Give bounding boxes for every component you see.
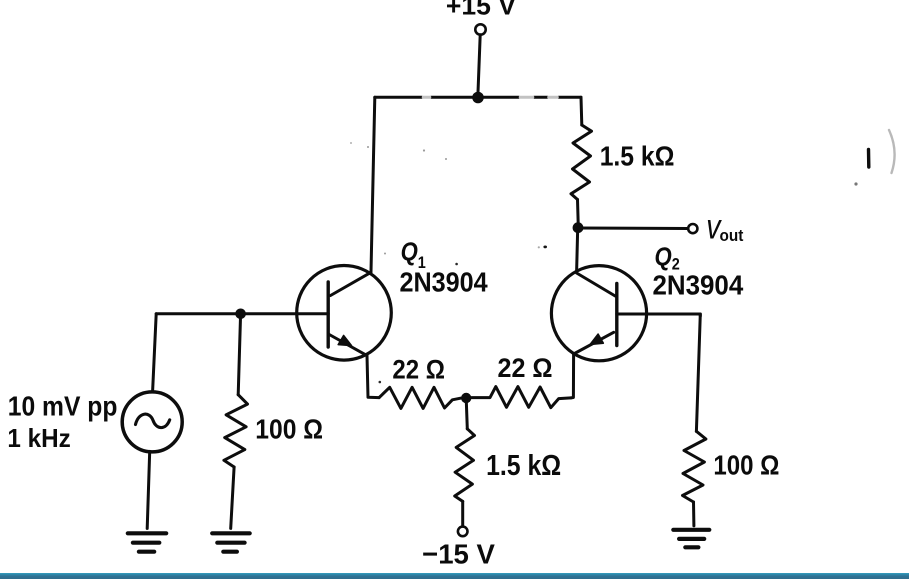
svg-text:1.5 kΩ: 1.5 kΩ (486, 449, 561, 481)
svg-text:−15 V: −15 V (422, 538, 495, 569)
wire top supply rail (375, 96, 581, 99)
wire RB1 to ground (231, 467, 234, 528)
wire RB2 to ground (692, 502, 695, 526)
transistor Q1 circle (297, 266, 392, 361)
ground RB1 (212, 533, 250, 551)
decorative bottom blue bar (0, 573, 909, 579)
wire +15V terminal to rail (478, 35, 480, 98)
node -15V terminal (458, 527, 468, 537)
wire rail left drop to Q1 collector (371, 97, 375, 271)
wire source to ground (147, 451, 150, 528)
transistor Q1 collector lead (331, 272, 372, 295)
transistor Q2 emitter lead (574, 332, 614, 354)
svg-text:100 Ω: 100 Ω (713, 449, 779, 481)
wire Q2 base net down to RB2 (696, 314, 700, 431)
wire RC bottom to vout node (576, 200, 580, 228)
node junction dot at collector/vout (573, 222, 584, 233)
svg-text:1.5 kΩ: 1.5 kΩ (600, 140, 675, 172)
svg-text:out: out (720, 227, 745, 245)
wire Q1 base lead to input net (156, 312, 328, 315)
transistor Q2 circle (551, 266, 646, 361)
svg-text:2N3904: 2N3904 (399, 266, 487, 298)
svg-text:1 kHz: 1 kHz (7, 424, 70, 453)
wire RE2 to Q2 emitter (571, 354, 574, 398)
wire RT to -15V terminal (461, 501, 464, 526)
ground RB2 (673, 530, 709, 548)
wire Q2 base lead right (617, 314, 701, 316)
resistor RC 1.5 kOhm (collector load) (571, 125, 592, 200)
transistor Q2 emitter arrow (590, 334, 603, 344)
resistor RB2 100 Ohm (683, 431, 706, 502)
stray scan dot (854, 182, 857, 185)
svg-text:22 Ω: 22 Ω (392, 355, 445, 385)
transistor Q1 base bar (327, 282, 330, 347)
wire vout node to output terminal (578, 227, 688, 231)
node junction dot input net (235, 309, 246, 320)
wire emitter net down to RT (466, 398, 467, 429)
wire Q1 emitter down to RE1 (367, 356, 379, 398)
stray scan mark arc (889, 130, 895, 173)
ground source (128, 533, 166, 551)
node junction dot emitter net (461, 393, 471, 403)
stray scan speck faint smudge (538, 246, 540, 248)
resistor RB1 100 Ohm (224, 395, 248, 467)
stray scan mark vertical tick (867, 150, 871, 168)
svg-text:2N3904: 2N3904 (652, 270, 743, 301)
svg-text:100 Ω: 100 Ω (255, 413, 323, 445)
stray scan speck left of Q2 label (543, 246, 547, 249)
resistor RE2 22 Ohm (472, 387, 571, 408)
source VS sine wave (136, 414, 170, 428)
transistor Q1 emitter lead (328, 334, 367, 356)
transistor Q2 collector lead (577, 273, 616, 296)
wire rail right drop to RC top (580, 97, 584, 125)
stray faint speckles (350, 142, 447, 254)
svg-text:22 Ω: 22 Ω (498, 352, 553, 383)
svg-text:10 mV pp: 10 mV pp (8, 390, 118, 422)
wire input net down to source (153, 314, 157, 392)
transistor Q1 emitter arrow (338, 336, 351, 346)
node vout terminal (688, 224, 697, 233)
resistor RT 1.5 kOhm (tail) (455, 429, 475, 502)
wire input net to RB1 (238, 314, 240, 395)
node +15 V terminal (475, 24, 485, 34)
stray scan speck above RE1 (379, 381, 382, 384)
resistor RE1 22 Ohm (379, 387, 460, 408)
wire rail scan dropout gaps (424, 95, 557, 100)
source VS circle (122, 392, 182, 452)
wire vout node down to Q2 collector (577, 232, 578, 272)
transistor Q2 base bar (615, 284, 618, 346)
svg-text:+15 V: +15 V (446, 0, 517, 21)
stray scan speck near Q1 label (455, 263, 458, 266)
node junction dot on +15V rail (472, 92, 484, 104)
